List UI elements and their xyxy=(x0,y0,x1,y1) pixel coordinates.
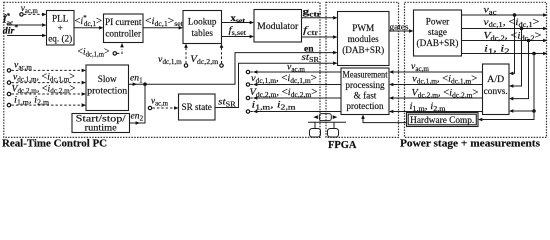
svg-text:Power: Power xyxy=(426,17,449,27)
svg-text:(DAB+SR): (DAB+SR) xyxy=(342,45,384,55)
svg-text:stage: stage xyxy=(428,27,447,37)
svg-text:tables: tables xyxy=(191,28,213,38)
svg-text:PI current: PI current xyxy=(105,17,142,27)
svg-text:eq. (2): eq. (2) xyxy=(48,34,72,44)
svg-text:Lookup: Lookup xyxy=(188,17,217,27)
svg-text:modules: modules xyxy=(348,34,380,44)
svg-text:Power stage + measurements: Power stage + measurements xyxy=(400,139,540,150)
svg-text:processing: processing xyxy=(345,80,385,90)
svg-text:Hardware Comp.: Hardware Comp. xyxy=(410,115,474,125)
svg-text:protection: protection xyxy=(346,101,384,111)
svg-text:SR state: SR state xyxy=(182,102,212,112)
svg-text:PLL: PLL xyxy=(52,14,69,24)
svg-text:gates: gates xyxy=(390,22,410,32)
svg-text:Measurement: Measurement xyxy=(343,70,388,80)
svg-text:protection: protection xyxy=(87,86,127,96)
svg-text:Modulator: Modulator xyxy=(257,21,298,31)
svg-text:convs.: convs. xyxy=(484,86,508,96)
svg-text:Real-Time Control PC: Real-Time Control PC xyxy=(2,139,107,150)
svg-text:(DAB+SR): (DAB+SR) xyxy=(417,38,459,48)
svg-text:Slow: Slow xyxy=(98,74,117,84)
svg-text:+: + xyxy=(58,23,63,33)
svg-text:PWM: PWM xyxy=(352,23,374,33)
svg-text:controller: controller xyxy=(105,29,141,39)
svg-text:runtime: runtime xyxy=(85,123,117,133)
svg-text:FPGA: FPGA xyxy=(328,140,357,150)
svg-text:A/D: A/D xyxy=(487,74,504,84)
svg-text:& fast: & fast xyxy=(354,91,377,101)
